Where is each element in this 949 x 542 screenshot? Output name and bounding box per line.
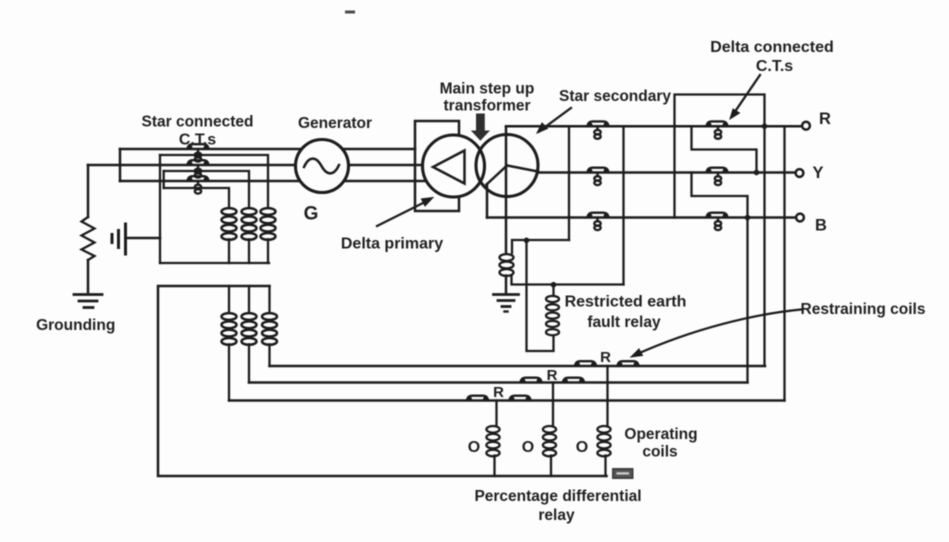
operating coil 2: [543, 426, 556, 476]
arrow delta CT: [730, 75, 760, 119]
svg-text:Star secondary: Star secondary: [559, 88, 671, 105]
svg-text:transformer: transformer: [444, 98, 531, 115]
wire delta link S1: [692, 126, 757, 172]
svg-text:coils: coils: [642, 444, 677, 461]
CT G2 bump on line 2: [188, 160, 209, 165]
wire V747 to row2: [746, 218, 748, 383]
junction dot S2: [745, 215, 751, 221]
svg-text:B: B: [815, 217, 827, 235]
coil burden C: [261, 208, 276, 263]
wire phase B right: [487, 216, 796, 219]
delta CT Y curl: [715, 174, 721, 186]
svg-text:relay: relay: [538, 507, 575, 524]
svg-text:Grounding: Grounding: [36, 317, 115, 334]
wire phase line 2 generator side: [88, 164, 422, 167]
row1 bump left: [575, 361, 596, 366]
svg-text:Delta primary: Delta primary: [341, 236, 443, 253]
wire V784 to row3: [783, 126, 785, 400]
junction dot R lead: [762, 123, 768, 129]
wire neutral down lead: [87, 165, 90, 217]
delta triangle: [433, 151, 465, 184]
ground symbol under resistor: [74, 295, 102, 308]
svg-text:Generator: Generator: [298, 115, 372, 132]
wire CT1 secondary lead: [160, 155, 268, 207]
junction dot H3: [551, 282, 557, 288]
wire CT2 secondary lead: [164, 171, 249, 207]
svg-text:R: R: [600, 349, 611, 366]
svg-text:Star connected: Star connected: [142, 114, 254, 131]
earth symbol sideways at CT common: [112, 224, 126, 254]
wire REF relay bottom loop: [527, 240, 554, 351]
operating coil 3: [597, 426, 610, 476]
delta CT Y bump: [707, 168, 728, 173]
wire neutral to ground: [505, 276, 508, 294]
wire earth to CT common bus: [126, 237, 161, 240]
svg-text:Percentage differential: Percentage differential: [474, 488, 641, 505]
REF relay coil: [546, 286, 559, 335]
wire resistor to ground: [87, 260, 90, 292]
generator sine wave: [304, 159, 339, 174]
lower coil 2: [242, 286, 257, 383]
svg-text:Main step up: Main step up: [440, 81, 535, 98]
wire row3 to op coil 1: [495, 401, 497, 427]
top small dash artifact: [345, 11, 355, 14]
junction dot H2: [524, 238, 530, 244]
wire phase line 1 generator side: [120, 148, 415, 151]
junction dot S1: [754, 170, 760, 176]
arrow star secondary: [537, 108, 571, 133]
wire restrain row 1: [270, 365, 766, 368]
star CT Y bump: [588, 168, 609, 173]
neutral CT curl: [500, 254, 514, 276]
terminal Y: [796, 169, 804, 177]
svg-text:Delta connected: Delta connected: [710, 39, 834, 56]
CT G3 curl: [195, 182, 201, 194]
delta CT outer box: [675, 95, 765, 218]
wire V1 star CT left lead: [568, 126, 570, 240]
wire V3 star CT right lead: [622, 126, 624, 284]
star circle: [476, 135, 538, 197]
delta circle: [423, 135, 485, 197]
ground symbol star neutral: [494, 295, 519, 312]
row1 bump right: [618, 361, 639, 366]
wire phase Y right: [538, 171, 796, 174]
wire CT burden bottom bus: [160, 262, 269, 264]
operating coil 1: [486, 426, 499, 476]
svg-text:G: G: [304, 204, 319, 225]
delta primary box: [415, 121, 459, 211]
star spokes: [487, 166, 539, 185]
svg-text:C.T.s: C.T.s: [756, 58, 793, 75]
wire CT common bus left: [159, 155, 161, 263]
grey artifact box: [613, 469, 633, 478]
star CT R bump: [588, 121, 609, 126]
wire H2 to neutral: [512, 240, 569, 253]
svg-text:C.T.s: C.T.s: [179, 132, 216, 149]
hollow arrow down: [472, 114, 489, 140]
wire H3 to neutral curl: [512, 276, 624, 285]
svg-text:Y: Y: [812, 164, 823, 182]
resistor grounding: [82, 217, 95, 260]
wire row2 to op coil 2: [552, 383, 554, 427]
svg-text:fault relay: fault relay: [587, 314, 661, 331]
wire delta link S2: [692, 173, 748, 218]
svg-text:Operating: Operating: [624, 426, 697, 443]
coil burden B: [242, 208, 257, 263]
svg-text:O: O: [522, 439, 534, 456]
svg-text:Restraining coils: Restraining coils: [801, 301, 926, 318]
CT G1 bump on line 1: [188, 144, 209, 149]
wire bus2 short: [163, 171, 165, 188]
arrow delta primary: [377, 198, 433, 227]
wire row1 to op coil 3: [606, 366, 608, 426]
wire star point vertical: [119, 149, 122, 181]
wire restrain row 3: [229, 399, 785, 402]
star CT R curl: [594, 127, 600, 139]
star CT Y curl: [594, 174, 600, 186]
svg-text:O: O: [576, 439, 588, 456]
coil burden A: [222, 208, 237, 263]
lower coil 1: [222, 286, 237, 401]
wire restrain row 2: [249, 381, 748, 384]
row2 bump left: [521, 378, 542, 383]
arrow restraining coils: [631, 310, 801, 358]
lower left box: [158, 286, 607, 476]
wire CT3 secondary lead: [164, 188, 229, 207]
row3 bump right: [510, 396, 531, 401]
star CT B bump: [588, 213, 609, 218]
wire phase R right: [506, 125, 802, 128]
svg-text:Restricted earth: Restricted earth: [565, 294, 687, 311]
row2 bump right: [563, 378, 584, 383]
delta CT B bump: [707, 213, 728, 218]
star CT B curl: [594, 219, 600, 231]
svg-text:R: R: [493, 384, 504, 401]
svg-text:O: O: [468, 439, 480, 456]
delta CT R bump: [707, 121, 728, 126]
terminal R: [802, 122, 810, 130]
wire phase line 3 generator side: [120, 180, 424, 183]
generator circle G: [296, 140, 349, 193]
CT G1 curl: [195, 150, 201, 162]
lower coil 3: [262, 286, 277, 366]
terminal B: [796, 214, 804, 222]
delta CT B curl: [715, 219, 721, 231]
wire B line left hook to star: [486, 185, 489, 218]
row3 bump left: [467, 396, 488, 401]
wire star neutral vertical: [505, 127, 508, 254]
svg-text:R: R: [819, 110, 831, 128]
CT G3 bump on line 3: [188, 176, 209, 181]
CT G2 curl: [195, 166, 201, 178]
wire V764 to row1: [763, 126, 765, 366]
delta CT R curl: [715, 127, 721, 139]
